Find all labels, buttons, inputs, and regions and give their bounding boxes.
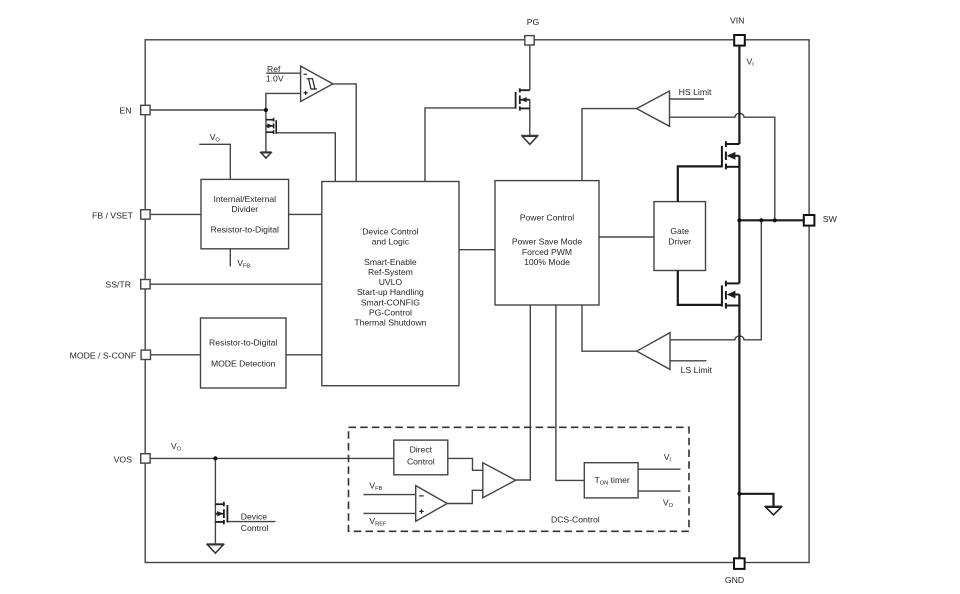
svg-text:PG-Control: PG-Control xyxy=(369,308,412,318)
svg-text:Smart-Enable: Smart-Enable xyxy=(364,257,417,267)
svg-text:Device Control: Device Control xyxy=(362,226,418,236)
svg-text:MODE / S-CONF: MODE / S-CONF xyxy=(70,351,137,361)
svg-text:DCS-Control: DCS-Control xyxy=(551,514,600,524)
svg-text:Thermal Shutdown: Thermal Shutdown xyxy=(354,318,426,328)
svg-text:Forced PWM: Forced PWM xyxy=(522,247,572,257)
svg-text:Device: Device xyxy=(241,511,267,521)
svg-text:Direct: Direct xyxy=(410,444,433,454)
svg-text:and Logic: and Logic xyxy=(372,237,410,247)
svg-text:Power Save Mode: Power Save Mode xyxy=(512,237,582,247)
svg-text:SS/TR: SS/TR xyxy=(105,280,131,290)
svg-text:Smart-CONFIG: Smart-CONFIG xyxy=(361,297,421,307)
svg-text:Ref-System: Ref-System xyxy=(368,267,413,277)
svg-text:HS Limit: HS Limit xyxy=(679,87,712,97)
svg-text:PG: PG xyxy=(527,17,540,27)
svg-text:UVLO: UVLO xyxy=(379,277,403,287)
svg-text:Control: Control xyxy=(407,457,435,467)
svg-text:1.0V: 1.0V xyxy=(266,73,284,83)
svg-text:LS Limit: LS Limit xyxy=(681,365,713,375)
svg-text:SW: SW xyxy=(823,214,838,224)
svg-text:Control: Control xyxy=(241,523,269,533)
svg-text:VOS: VOS xyxy=(114,454,133,464)
svg-text:Start-up Handling: Start-up Handling xyxy=(357,287,424,297)
svg-text:FB / VSET: FB / VSET xyxy=(92,210,134,220)
svg-text:Divider: Divider xyxy=(231,204,258,214)
svg-text:VIN: VIN xyxy=(730,15,744,25)
svg-text:MODE Detection: MODE Detection xyxy=(211,359,276,369)
svg-text:Internal/External: Internal/External xyxy=(214,194,277,204)
svg-text:Resistor-to-Digital: Resistor-to-Digital xyxy=(209,337,277,347)
svg-text:Gate: Gate xyxy=(670,226,689,236)
svg-text:100% Mode: 100% Mode xyxy=(524,257,570,267)
svg-text:Driver: Driver xyxy=(668,236,691,246)
svg-text:Power Control: Power Control xyxy=(520,212,575,222)
svg-text:Resistor-to-Digital: Resistor-to-Digital xyxy=(211,225,279,235)
svg-text:EN: EN xyxy=(119,106,131,116)
svg-text:GND: GND xyxy=(725,575,744,585)
